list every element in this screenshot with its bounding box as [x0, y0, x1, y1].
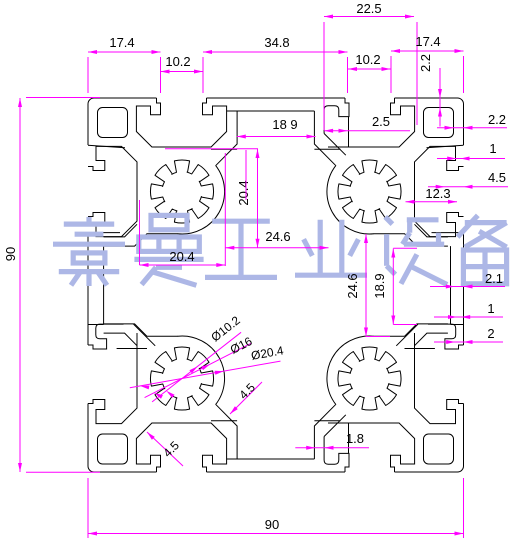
gear screw-boss hole U2 top-right — [338, 160, 401, 223]
svg-text:2.2: 2.2 — [418, 54, 433, 72]
T-slot right face upper (center y=191.5) — [415, 146, 464, 236]
boss arc + webs, gear U1 top-left — [178, 165, 225, 234]
boss arc + webs, gear U3 bottom-left — [178, 336, 225, 405]
svg-text:34.8: 34.8 — [264, 35, 289, 50]
profile outer corner top-right — [458, 98, 464, 104]
profile outer corner bottom-left — [88, 466, 94, 472]
T-slot bottom face right (center x=369.5), right half — [328, 423, 415, 472]
watermark char 6 — [458, 215, 507, 283]
gear screw-boss hole U1 top-left — [150, 160, 213, 223]
svg-text:20.4: 20.4 — [236, 180, 251, 205]
svg-text:90: 90 — [265, 517, 279, 532]
top face wall segments — [94, 97, 157, 99]
T-slot bottom face left (center x=181.5) — [136, 423, 226, 472]
junction pocket top face — [324, 98, 349, 134]
svg-text:24.6: 24.6 — [345, 273, 360, 298]
svg-text:2.5: 2.5 — [372, 114, 390, 129]
svg-text:24.6: 24.6 — [265, 229, 290, 244]
watermark char 3 — [205, 221, 277, 277]
corner square hole top-right — [424, 108, 454, 138]
T-slot left face lower (center y=378.5), lower half — [88, 333, 137, 424]
inner wall line bottom face — [227, 458, 315, 460]
corner square hole top-left — [98, 108, 128, 138]
svg-text:12.3: 12.3 — [425, 186, 450, 201]
svg-text:10.2: 10.2 — [355, 52, 380, 67]
left face wall segments — [87, 404, 89, 467]
dia callout Ø20.4 (gear U3 boss) — [130, 361, 281, 388]
boss arc + webs, gear U4 bottom-right — [327, 336, 374, 405]
svg-text:2: 2 — [487, 326, 494, 341]
T-slot top face left (slot center x=181.5) — [136, 98, 226, 147]
watermark char 4 — [295, 220, 367, 275]
junction pocket bottom face — [324, 437, 349, 473]
svg-text:18.9: 18.9 — [372, 273, 387, 298]
T-slot right face lower (center y=378.5), lower half — [415, 333, 464, 424]
leader 4.5 (lower, slot lip) — [147, 432, 183, 466]
svg-text:2.1: 2.1 — [485, 271, 503, 286]
profile outer corner bottom-right — [458, 466, 464, 472]
junction pocket left face — [88, 324, 124, 349]
dia callout Ø10.2 (gear U3 core) — [152, 332, 241, 402]
inner wall line top face — [227, 110, 315, 112]
corner square hole bottom-left — [98, 434, 128, 464]
boss arc + webs, gear U2 top-right — [327, 165, 374, 234]
svg-text:17.4: 17.4 — [109, 35, 134, 50]
svg-text:1: 1 — [487, 301, 494, 316]
bottom face wall segments — [395, 471, 458, 473]
dia callout Ø16 (gear U3 tips) — [145, 343, 252, 398]
gear screw-boss hole U3 bottom-left — [150, 347, 213, 410]
junction pocket right face — [428, 324, 464, 349]
svg-text:20.4: 20.4 — [169, 249, 194, 264]
gear screw-boss hole U4 bottom-right — [338, 347, 401, 410]
right face wall segments — [463, 104, 465, 145]
svg-text:17.4: 17.4 — [415, 34, 440, 49]
inner wall line left face — [103, 246, 105, 324]
profile outer corner top-left — [88, 98, 94, 104]
T-slot top face right (slot center x=369.5), right half — [328, 98, 415, 147]
svg-text:4.5: 4.5 — [488, 170, 506, 185]
watermark char 1 — [53, 217, 125, 286]
inner wall line right face — [450, 246, 452, 324]
watermark char 2 — [134, 215, 203, 285]
svg-text:10.2: 10.2 — [165, 54, 190, 69]
svg-text:22.5: 22.5 — [356, 1, 381, 16]
T-slot left face upper (center y=191.5) — [88, 146, 137, 236]
svg-text:1.8: 1.8 — [346, 431, 364, 446]
watermark char 5 — [385, 217, 447, 285]
svg-text:18 9: 18 9 — [272, 117, 297, 132]
svg-text:90: 90 — [3, 247, 18, 261]
corner square hole bottom-right — [424, 434, 454, 464]
svg-text:1: 1 — [489, 141, 496, 156]
leader 4.5 (upper, slot lip) — [230, 382, 262, 414]
svg-text:2.2: 2.2 — [488, 112, 506, 127]
